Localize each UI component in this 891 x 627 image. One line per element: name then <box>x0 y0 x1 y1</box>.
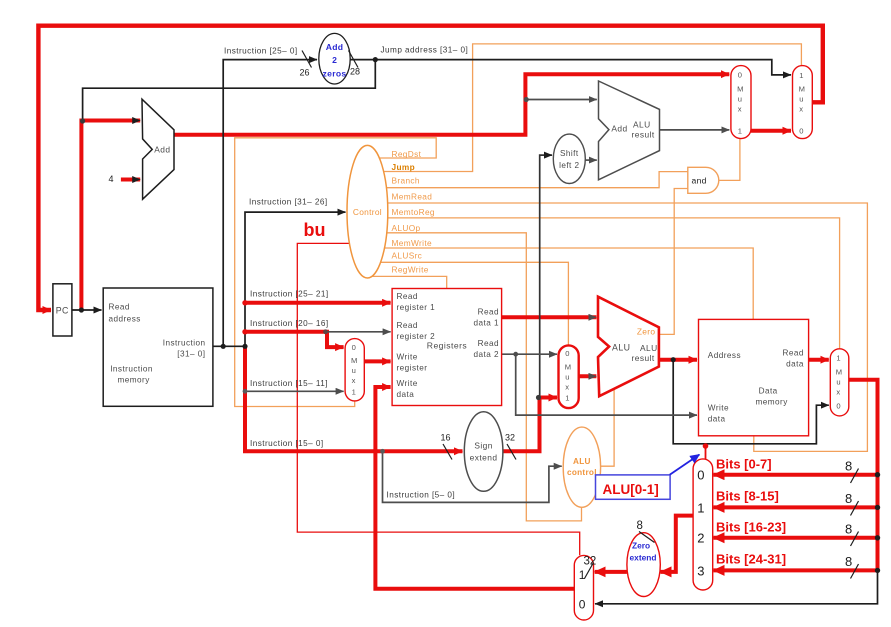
svg-text:2: 2 <box>697 531 704 546</box>
svg-text:0: 0 <box>836 401 840 410</box>
wire: orange Zero flag (ALU to and gate) <box>659 189 688 335</box>
node: instruction memory output junction 1 <box>221 344 226 349</box>
node: instruction memory output junction 2 <box>242 344 247 349</box>
svg-text:1: 1 <box>738 127 742 136</box>
wire: gray PC+4 tap to branch adder input 1 <box>526 99 597 101</box>
svg-text:address: address <box>109 314 141 323</box>
svg-text:Read: Read <box>397 292 418 301</box>
svg-text:Instruction [25– 0]: Instruction [25– 0] <box>224 47 298 56</box>
wire: thick red branch mux output to jump mux input 0 <box>751 129 791 133</box>
node: shift-left-2 tap junction <box>536 395 541 400</box>
svg-text:left 2: left 2 <box>559 161 579 170</box>
jump mux <box>793 66 813 139</box>
svg-text:control: control <box>567 468 597 477</box>
svg-text:ALU[0-1]: ALU[0-1] <box>603 482 659 497</box>
node: PC output junction <box>79 307 84 312</box>
svg-text:Control: Control <box>353 207 382 217</box>
wire: thick red Sign extend output to ALU source mux input 1 <box>503 398 557 452</box>
wire: black word bus down to byte-word mux input 0 <box>595 570 878 603</box>
svg-text:Bits [8-15]: Bits [8-15] <box>716 488 779 503</box>
svg-text:8: 8 <box>845 554 852 569</box>
svg-text:0: 0 <box>738 71 742 80</box>
wire: orange RegWrite control (Control to Registers top) <box>372 276 447 288</box>
node: Read data 2 branch junction <box>513 352 518 357</box>
svg-text:and: and <box>692 176 707 186</box>
wire: thick red Instruction [25-21] to Read register 1 <box>245 301 391 305</box>
wire: black Instruction [25-0] spine up to Add-2-zeros oval <box>223 60 317 347</box>
svg-text:32: 32 <box>505 433 515 443</box>
svg-text:Instruction [15– 0]: Instruction [15– 0] <box>250 439 324 448</box>
svg-text:Read: Read <box>109 302 130 311</box>
write-register mux <box>345 339 364 401</box>
wire: thick red constant 4 into Add <box>121 178 140 182</box>
node: word bus junction at Bits 0-7 <box>875 472 880 477</box>
wire: thick red Zero extend output to byte-word mux input 1 <box>595 570 627 574</box>
node: word bus junction at Bits 16-23 <box>875 535 880 540</box>
svg-text:1: 1 <box>352 387 356 396</box>
wire: black Jump address [31-0] to jump mux input 1 <box>350 60 791 75</box>
registers box <box>392 289 502 406</box>
control unit oval <box>347 145 388 278</box>
svg-text:28: 28 <box>350 67 360 77</box>
svg-text:Sign: Sign <box>474 441 493 451</box>
svg-text:Bits [24-31]: Bits [24-31] <box>716 551 786 566</box>
wire: orange ALU control output to ALU bottom <box>600 389 614 466</box>
slash and label: 8-bit width Bits 0-7 <box>845 459 859 484</box>
node: word bus junction at Bits 24-31 <box>875 568 880 573</box>
svg-text:Add: Add <box>611 124 627 134</box>
wire: red byte mux select stub from ALU[0-1] tap <box>705 444 707 460</box>
svg-text:ALUOp: ALUOp <box>392 223 421 233</box>
svg-text:Branch: Branch <box>392 176 420 186</box>
svg-text:x: x <box>836 388 840 397</box>
svg-text:1: 1 <box>579 568 586 582</box>
wire: gray Instruction [20-16] to Read register 2 <box>327 331 391 333</box>
adder Add (branch target) <box>599 81 660 180</box>
wire: black Instruction memory output line <box>213 345 245 347</box>
wire: thick red Bits [16-23] into byte mux input 2 <box>714 536 878 540</box>
wire: gray Shift left 2 output to branch adder input 2 <box>585 159 597 161</box>
svg-text:Registers: Registers <box>427 341 467 351</box>
svg-text:bu: bu <box>304 220 326 240</box>
svg-text:extend: extend <box>470 452 498 462</box>
svg-text:8: 8 <box>845 459 852 474</box>
svg-text:data: data <box>397 390 415 399</box>
node: word bus junction at Bits 8-15 <box>875 505 880 510</box>
svg-text:1: 1 <box>799 71 803 80</box>
wire: black instruction spine 2 and Instruction [31-26] into Control <box>245 212 346 346</box>
wire: gray branch adder result to branch mux input 1 <box>660 129 730 131</box>
svg-text:Instruction: Instruction <box>110 364 153 373</box>
wire: orange RegDst control (Control to write-register mux select) <box>235 138 437 407</box>
ALU[0-1] callout box <box>596 475 671 499</box>
wire: thick red PC+4 from Add output to branch mux input 0 <box>174 74 730 135</box>
svg-text:Shift: Shift <box>560 149 579 158</box>
instruction memory box <box>103 288 213 406</box>
wire: thick red PC feedback (jump mux output around top to PC) <box>38 26 822 310</box>
node: PC column and PC[31-28] line junction <box>80 118 85 123</box>
node: Instruction [15-11] spine junction <box>243 389 248 394</box>
wire: thick red Read data 1 to ALU input 1 <box>502 315 597 319</box>
svg-text:zeros: zeros <box>323 69 347 79</box>
svg-text:Zero: Zero <box>637 327 655 337</box>
wire: black ALU result bypass to memory mux input 0 <box>673 360 829 444</box>
blue callout arrow to select tap <box>670 455 700 475</box>
svg-text:MemRead: MemRead <box>392 191 433 201</box>
svg-text:memory: memory <box>118 375 151 384</box>
wire: thick red ALU source mux output to ALU input 2 <box>579 374 597 378</box>
svg-text:Read: Read <box>478 307 499 316</box>
svg-text:RegWrite: RegWrite <box>392 265 429 275</box>
slash: 28-bit width mark <box>349 51 359 68</box>
svg-text:Instruction: Instruction <box>163 339 206 348</box>
wire: thick red byte-word mux output to Registers Write data <box>375 387 574 589</box>
wire: thick red ALU result to Data memory Address <box>659 358 697 362</box>
svg-text:2: 2 <box>332 55 337 65</box>
node: PC+4 tap junction <box>524 97 529 102</box>
node: Instruction [25-21] spine junction <box>242 300 247 305</box>
svg-text:data: data <box>708 414 726 423</box>
svg-text:Address: Address <box>708 351 741 360</box>
svg-text:8: 8 <box>637 520 643 532</box>
ALU control oval <box>563 427 600 507</box>
wire: thick red memory mux output bus down right side <box>849 380 878 571</box>
svg-text:Instruction [31– 26]: Instruction [31– 26] <box>249 198 328 207</box>
svg-text:0: 0 <box>352 343 356 352</box>
node: ALU[0-1] select tap junction <box>703 443 709 449</box>
slash: 32-bit width mark at byte-word mux <box>585 563 594 579</box>
svg-text:x: x <box>738 105 742 114</box>
svg-text:16: 16 <box>441 433 451 443</box>
node: jump address junction <box>373 57 378 62</box>
svg-text:26: 26 <box>300 68 310 78</box>
svg-text:RegDst: RegDst <box>392 149 422 159</box>
slash and label: 8-bit width Bits 24-31 <box>845 554 859 579</box>
svg-text:ALU: ALU <box>573 457 591 466</box>
wire: thick red Bits [0-7] into byte mux input 0 <box>714 473 878 477</box>
svg-text:data: data <box>786 360 804 369</box>
wire: thick red Instruction [20-16] to write-register mux input 0 <box>245 332 344 347</box>
svg-text:Zero: Zero <box>632 540 650 550</box>
svg-text:x: x <box>799 105 803 114</box>
wire: thick red PC value up from PC output to Add <box>81 121 140 311</box>
svg-text:PC: PC <box>56 306 69 316</box>
svg-text:4: 4 <box>109 174 114 184</box>
svg-text:Instruction [20– 16]: Instruction [20– 16] <box>250 319 329 328</box>
svg-text:extend: extend <box>630 552 657 562</box>
svg-text:M: M <box>799 85 805 94</box>
slash and label: 8-bit width Bits 16-23 <box>845 522 859 547</box>
wire: orange ALUOp control (Control to ALU control bottom) <box>387 233 582 521</box>
svg-text:u: u <box>799 95 803 104</box>
node: Instruction [20-16] spine junction <box>242 329 247 334</box>
svg-text:8: 8 <box>845 522 852 537</box>
svg-text:data 2: data 2 <box>474 350 499 359</box>
svg-text:result: result <box>632 130 655 140</box>
svg-text:u: u <box>565 373 569 382</box>
adder Add (PC+4) <box>142 99 174 199</box>
shift left 2 oval <box>553 134 585 183</box>
svg-text:u: u <box>738 95 742 104</box>
wire: orange Branch control (Control to and gate) <box>387 172 688 188</box>
wire: black PC output to Read address <box>72 309 102 311</box>
svg-text:ALU: ALU <box>612 342 630 352</box>
wire: thick red write-register mux output to Write register <box>364 359 390 363</box>
wire: black PC[31-28] tap from jump address junction to PC column <box>83 60 376 121</box>
node: ALU result bypass junction <box>671 357 676 362</box>
svg-text:3: 3 <box>697 563 704 578</box>
svg-text:1: 1 <box>697 500 704 515</box>
svg-text:1: 1 <box>565 394 569 403</box>
svg-text:register: register <box>397 364 428 373</box>
svg-text:[31– 0]: [31– 0] <box>177 350 205 359</box>
svg-text:result: result <box>632 353 655 363</box>
wire: orange MemRead control (Control around right side to Data memory bottom) <box>388 203 868 451</box>
svg-text:ALUSrc: ALUSrc <box>392 250 423 260</box>
zero extend oval <box>627 533 660 597</box>
PC register <box>53 284 72 336</box>
wire: gray Instruction [5-0] to ALU control <box>383 451 562 502</box>
svg-text:M: M <box>565 363 571 372</box>
svg-text:Write: Write <box>397 353 418 362</box>
svg-text:register 1: register 1 <box>397 303 436 312</box>
slash: 32-bit width mark <box>507 444 516 460</box>
slash: 8-bit width mark at zero extend <box>639 532 655 543</box>
memory-to-register mux <box>830 349 849 416</box>
svg-text:M: M <box>351 356 357 365</box>
wire: orange Jump control (Control to jump mux select) <box>384 44 802 172</box>
ALU source mux <box>559 345 579 408</box>
wire: gray Instruction [15-11] to write-register mux input 1 <box>245 390 344 392</box>
svg-text:MemWrite: MemWrite <box>392 238 432 248</box>
svg-text:Add: Add <box>154 145 170 155</box>
wire: thick red Bits [24-31] into byte mux input 3 <box>714 568 878 572</box>
svg-text:Bits [16-23]: Bits [16-23] <box>716 519 786 534</box>
svg-text:0: 0 <box>565 349 569 358</box>
svg-text:Read: Read <box>783 349 804 358</box>
svg-text:Bits [0-7]: Bits [0-7] <box>716 456 772 471</box>
svg-text:data 1: data 1 <box>474 318 499 327</box>
svg-text:u: u <box>836 378 840 387</box>
svg-text:Write: Write <box>397 379 418 388</box>
slash: 16-bit width mark <box>443 444 452 460</box>
node: Instruction [5-0] tap junction <box>380 449 385 454</box>
svg-text:8: 8 <box>845 491 852 506</box>
svg-text:memory: memory <box>756 398 789 407</box>
svg-text:Instruction [15– 11]: Instruction [15– 11] <box>250 379 328 388</box>
wire: thick red instruction spine and Instruction [15-0] to Sign extend <box>245 345 463 451</box>
svg-text:Add: Add <box>326 42 344 52</box>
wire: orange and-gate output to branch mux select <box>719 138 740 180</box>
byte select mux <box>693 459 713 590</box>
svg-text:32: 32 <box>584 556 597 568</box>
wire: red bu control line (Control to byte-word mux select) <box>297 243 579 555</box>
wire: orange MemtoReg control (Control to memory mux select) <box>388 218 840 349</box>
wire: gray Read data 2 branch down to Data memory Write data <box>516 354 697 415</box>
svg-text:MemtoReg: MemtoReg <box>392 207 435 217</box>
svg-text:M: M <box>836 368 842 377</box>
svg-text:0: 0 <box>579 598 586 612</box>
svg-text:ALU: ALU <box>640 343 658 353</box>
svg-text:0: 0 <box>697 468 704 483</box>
svg-text:Jump address [31– 0]: Jump address [31– 0] <box>381 46 469 55</box>
sign extend oval <box>464 412 503 492</box>
svg-text:Write: Write <box>708 403 729 412</box>
svg-text:Jump: Jump <box>392 162 416 172</box>
data memory box <box>699 319 809 435</box>
svg-text:ALU: ALU <box>633 119 651 129</box>
byte-word mux <box>574 555 593 620</box>
wire: dark tap from sign-extend path up to Shift left 2 <box>540 155 552 397</box>
svg-text:Read: Read <box>397 321 418 330</box>
svg-text:x: x <box>352 376 356 385</box>
and gate <box>688 167 719 193</box>
slash and label: 8-bit width Bits 8-15 <box>845 491 859 516</box>
svg-text:x: x <box>565 383 569 392</box>
main ALU <box>598 297 659 397</box>
wire: thick red Bits [8-15] into byte mux input 1 <box>714 505 878 509</box>
wire: thick red Data memory Read data to memory mux input 1 <box>809 358 829 362</box>
svg-text:1: 1 <box>836 353 840 362</box>
svg-text:Data: Data <box>759 387 778 396</box>
branch mux <box>731 66 751 139</box>
svg-text:0: 0 <box>799 127 803 136</box>
wire: orange ALUSrc control (Control to ALU source mux select) <box>381 262 569 345</box>
node: Instruction [20-16] split junction <box>323 329 328 334</box>
svg-text:Instruction [25– 21]: Instruction [25– 21] <box>250 290 329 299</box>
svg-text:M: M <box>737 85 743 94</box>
oval Add 2 zeros <box>319 33 350 84</box>
svg-text:u: u <box>352 366 356 375</box>
slash: 26-bit width mark <box>302 51 312 68</box>
svg-text:Instruction [5– 0]: Instruction [5– 0] <box>387 490 456 499</box>
wire: thick red byte mux output to Zero extend <box>661 516 694 572</box>
svg-text:Read: Read <box>478 339 499 348</box>
wire: gray Read data 2 to ALU source mux input 0 <box>502 353 557 355</box>
wire: orange MemWrite control (Control to Data memory top) <box>384 248 753 319</box>
